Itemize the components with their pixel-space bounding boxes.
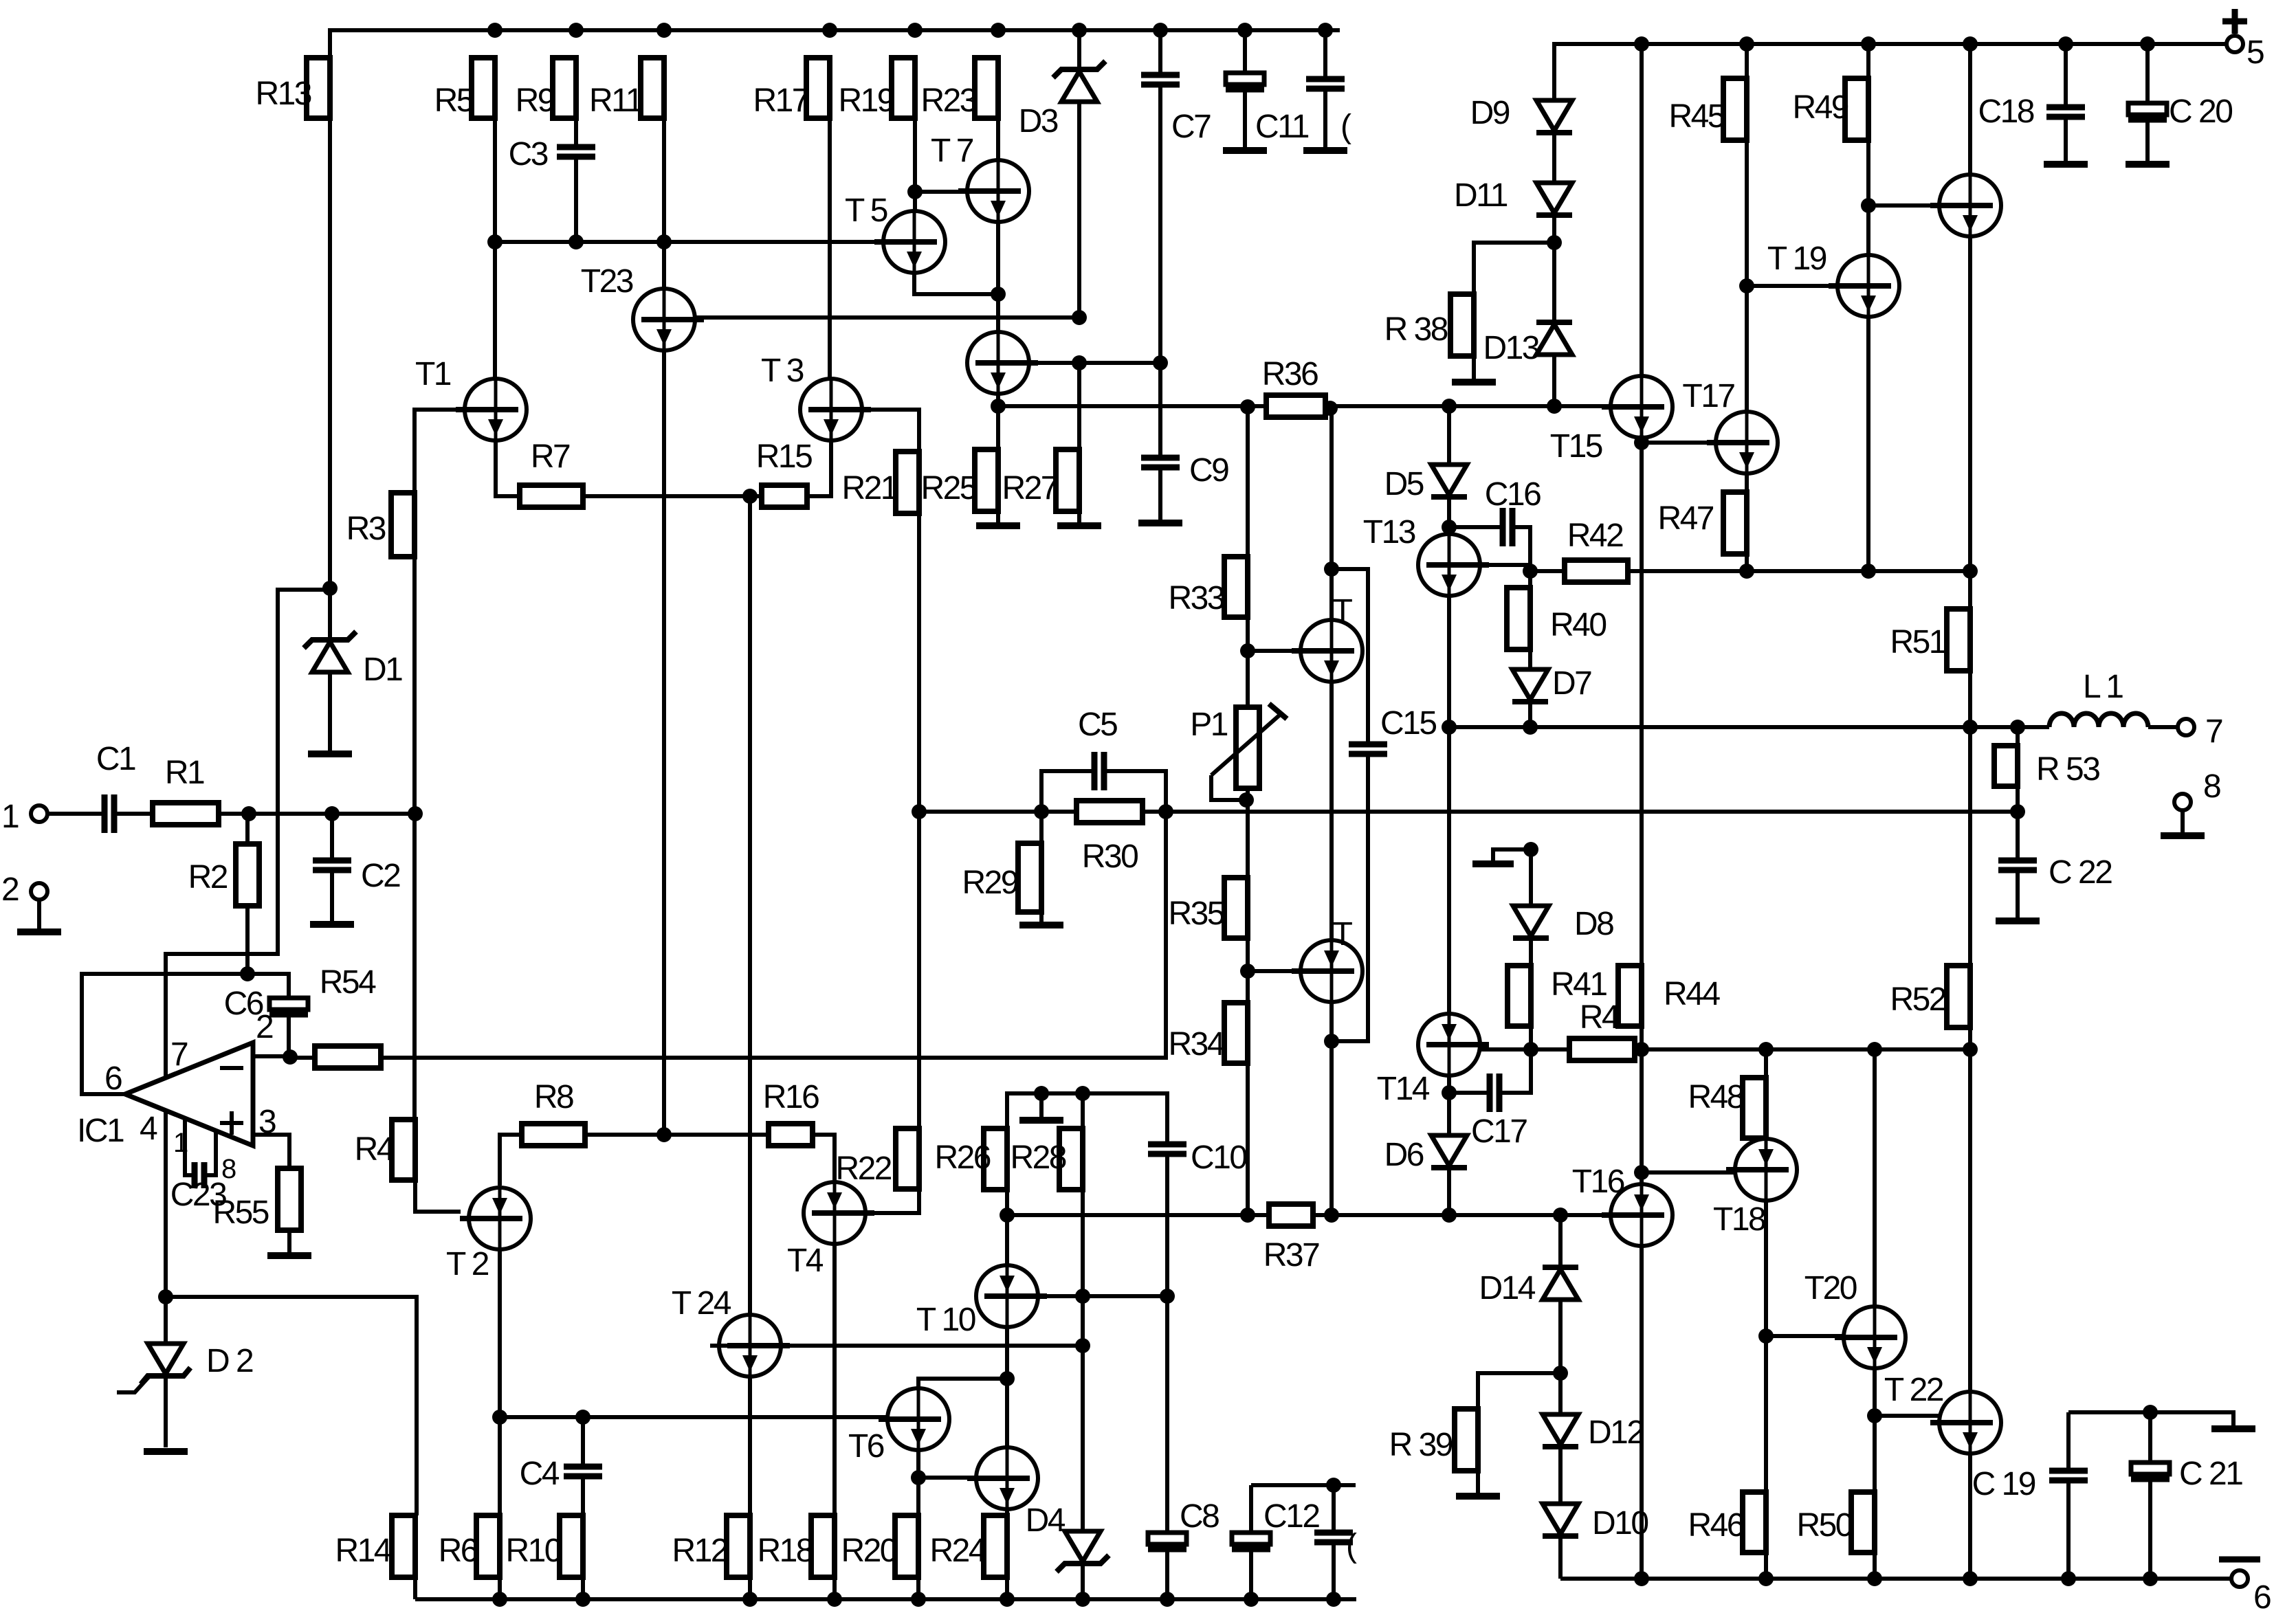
resistor R45: [1668, 78, 1747, 140]
wire C11 to ground: [1243, 89, 1247, 148]
wire R6 to rail: [498, 1577, 502, 1599]
node R51 output row: [1963, 720, 1978, 735]
wire to R39: [1478, 1373, 1560, 1409]
node D1 top: [322, 581, 338, 596]
wire R52 to R43 row: [1968, 1027, 1972, 1049]
diode D9: [1470, 95, 1572, 133]
wire D13 to R36 row: [1552, 355, 1556, 406]
node output col top: [1323, 401, 1338, 416]
wire C5 loop: [1041, 771, 1094, 812]
wire terminal2 to ground: [37, 900, 41, 929]
resistor R43: [1569, 999, 1635, 1060]
ground C13: [1303, 147, 1347, 154]
wire T15 emitter to T17 base: [1642, 441, 1717, 445]
resistor R3: [346, 493, 415, 557]
wire C22 stem: [2016, 812, 2020, 860]
wire T10 emitter: [1005, 1326, 1009, 1379]
node R44 R43 row: [1634, 1042, 1649, 1057]
svg-text:R44: R44: [1664, 976, 1720, 1012]
wire D6 to R37 row: [1447, 1168, 1451, 1215]
node T10 emitter: [1000, 1371, 1015, 1386]
wire T13 emitter to output: [1447, 596, 1451, 727]
svg-text:R 38: R 38: [1384, 311, 1448, 348]
node R28 T10 row: [1075, 1289, 1090, 1304]
wire T23 base row: [695, 315, 1079, 320]
svg-text:1: 1: [173, 1128, 188, 1158]
svg-text:T 10: T 10: [916, 1302, 975, 1338]
svg-text:R29: R29: [962, 865, 1017, 901]
wire C2 to ground: [330, 870, 334, 922]
wire terminal1 to C1: [47, 812, 104, 816]
resistor R13: [255, 58, 330, 118]
node rail R11: [656, 23, 672, 38]
wire T7 base row: [915, 190, 967, 194]
node R34 R37 row: [1240, 1208, 1255, 1223]
wire D1 anode to ground: [328, 672, 332, 751]
wire C4 to R10: [581, 1476, 585, 1515]
node rail R50: [1867, 1571, 1882, 1586]
svg-text:R37: R37: [1263, 1237, 1319, 1273]
wire T9 emitter: [996, 393, 1000, 406]
diode D14: [1479, 1267, 1578, 1306]
svg-text:D14: D14: [1479, 1270, 1535, 1306]
svg-text:6: 6: [104, 1060, 122, 1097]
svg-text:D 2: D 2: [206, 1343, 253, 1379]
wire D5 top: [1447, 406, 1451, 465]
node R43 row T20: [1867, 1042, 1882, 1057]
wire node to R27: [1077, 363, 1081, 449]
resistor R52: [1890, 966, 1970, 1027]
svg-text:R18: R18: [757, 1533, 813, 1569]
svg-text:4: 4: [140, 1111, 157, 1147]
svg-text:R23: R23: [920, 82, 976, 119]
diode D7: [1512, 665, 1591, 702]
wire C16 left: [1449, 525, 1503, 529]
svg-text:T: T: [1333, 916, 1353, 953]
node rail R45: [1739, 36, 1754, 52]
capacitor C16: [1485, 476, 1541, 546]
ground C9: [1138, 520, 1182, 526]
wire R37 row: [1005, 1213, 1269, 1217]
resistor R46: [1688, 1492, 1766, 1553]
svg-text:R9: R9: [516, 82, 555, 119]
wire node to R38: [1474, 243, 1554, 294]
node rail R10: [575, 1592, 590, 1607]
wire C4 stem: [581, 1417, 585, 1467]
svg-text:C6: C6: [224, 986, 263, 1022]
wire terminal 8 ground: [2181, 810, 2185, 833]
wire R41 to T14 base row: [1529, 1026, 1533, 1049]
wire R24 to rail: [1005, 1577, 1009, 1599]
wire C8 to rail: [1165, 1549, 1169, 1599]
node P1 wiper: [1239, 792, 1254, 808]
wire R26 top link: [1007, 1093, 1167, 1144]
node R5 row: [487, 234, 503, 249]
ground chassis bar near C21: [2211, 1425, 2255, 1432]
capacitor C1: [96, 741, 135, 833]
svg-text:D12: D12: [1588, 1414, 1644, 1451]
node rail R23: [991, 23, 1006, 38]
resistor R29: [962, 843, 1041, 912]
wire R38 to ground: [1472, 356, 1476, 379]
node rail C12: [1244, 1592, 1259, 1607]
wire C21 stem: [2148, 1412, 2152, 1462]
svg-text:R45: R45: [1668, 98, 1724, 135]
node T24 collector branch: [742, 489, 758, 504]
wire node to C6: [247, 974, 289, 998]
resistor R17: [753, 58, 830, 119]
node T14 emitter C17: [1442, 1085, 1457, 1100]
wire D11 to node: [1552, 215, 1556, 243]
node D5 T13: [1442, 520, 1457, 535]
capacitor C3: [509, 136, 595, 173]
wire T21 emitter: [1968, 236, 1972, 609]
node R36 row D5: [1442, 399, 1457, 414]
transistor T14: [1377, 1014, 1489, 1107]
svg-text:R16: R16: [763, 1079, 819, 1115]
wire C15 bracket top: [1332, 569, 1368, 744]
node D3 T9 row: [1072, 355, 1087, 370]
transistor T10: [916, 1265, 1047, 1338]
svg-text:T17: T17: [1682, 378, 1734, 414]
wire T14 base / R43 row: [1478, 1047, 1970, 1052]
wire T1 emitter to R7: [496, 441, 520, 496]
svg-text:T20: T20: [1804, 1270, 1857, 1306]
node R49 T19: [1861, 198, 1876, 213]
resistor R51: [1890, 609, 1970, 671]
diode D6: [1384, 1135, 1467, 1173]
svg-text:R49: R49: [1792, 89, 1848, 126]
transistor T3: [761, 353, 871, 441]
node R26 R37 row: [1000, 1208, 1015, 1223]
resistor R39: [1389, 1409, 1478, 1471]
svg-text:R52: R52: [1890, 981, 1945, 1018]
wire P1 to R35: [1246, 788, 1250, 878]
node rail R20: [911, 1592, 926, 1607]
resistor R23: [920, 58, 998, 119]
node D14 R37 row: [1553, 1208, 1568, 1223]
wire T24 base row: [710, 1344, 1083, 1348]
ground C18: [2044, 161, 2088, 168]
wire R11 to row: [662, 118, 666, 242]
svg-text:P1: P1: [1190, 707, 1228, 743]
node R48 R43 row: [1758, 1042, 1774, 1057]
wire output row to L1: [1449, 725, 2049, 729]
wire R26 bottom: [1005, 1190, 1009, 1215]
resistor R33: [1168, 557, 1248, 617]
resistor R9: [516, 58, 576, 119]
resistor R55: [212, 1168, 301, 1231]
wire top-right supply rail to terminal 5: [1554, 44, 2227, 98]
wire D14 top lead: [1558, 1215, 1563, 1267]
svg-text:7: 7: [170, 1036, 188, 1073]
terminal 7: [2178, 719, 2194, 735]
transistor T19: [1767, 241, 1899, 317]
wire D3 down: [1077, 102, 1081, 318]
svg-text:R20: R20: [841, 1533, 896, 1569]
svg-text:R6: R6: [439, 1533, 478, 1569]
node bus R30 right: [1158, 804, 1173, 819]
terminal 6 minus mark: [2219, 1557, 2260, 1563]
wire R8 to R16 row: [585, 1133, 769, 1137]
capacitor C6: [224, 986, 308, 1022]
wire R18 to rail: [832, 1577, 837, 1599]
ground R55: [267, 1252, 311, 1259]
wire T5 base row: [495, 240, 883, 244]
wire R28 col to T24 row: [1081, 1296, 1085, 1346]
wire T9 emitter / R36 row: [997, 404, 1611, 408]
wire output column upper: [1329, 408, 1334, 621]
svg-text:R25: R25: [920, 470, 976, 507]
svg-text:T 2: T 2: [446, 1246, 489, 1282]
node C7 T9 row: [1153, 355, 1168, 370]
transistor T4: [787, 1182, 874, 1279]
wire P1 wiper to bus: [1211, 775, 1246, 800]
transistor T20: [1804, 1270, 1906, 1368]
svg-text:C9: C9: [1189, 452, 1228, 489]
resistor R6: [439, 1515, 500, 1577]
op-amp IC1: [77, 1009, 276, 1149]
wire T20 base row: [1766, 1334, 1846, 1338]
wire node to D12: [1558, 1373, 1563, 1414]
wire D4 top: [1081, 1346, 1085, 1531]
resistor R49: [1792, 78, 1868, 140]
wire C7 to T9 row: [1158, 85, 1162, 363]
svg-text:T 7: T 7: [931, 133, 973, 169]
wire node to T5 collector: [913, 192, 917, 211]
wire bottom-right rail to terminal 6: [1560, 1577, 2231, 1581]
transistor T21: [1930, 175, 2001, 236]
capacitor C14: [1314, 1528, 1357, 1564]
wire IC1 output pin6: [82, 974, 247, 1094]
node T15 emitter: [1634, 435, 1649, 450]
transistor T11: [1292, 593, 1362, 682]
resistor R36: [1262, 356, 1325, 417]
resistor R35: [1168, 878, 1248, 938]
wire output col to R52: [1968, 727, 1972, 966]
svg-text:C 19: C 19: [1972, 1466, 2035, 1502]
wire T19 emitter to R42 row: [1866, 317, 1870, 571]
node C21 top: [2143, 1405, 2158, 1420]
node rail C8: [1160, 1592, 1175, 1607]
wire R16 to T4 collector: [813, 1135, 835, 1183]
svg-text:T13: T13: [1363, 514, 1415, 550]
svg-text:T 3: T 3: [761, 353, 804, 389]
ground D2: [144, 1448, 188, 1455]
capacitor C4: [520, 1456, 602, 1492]
svg-text:R14: R14: [335, 1533, 391, 1569]
node pin2: [283, 1049, 298, 1065]
wire R27 to ground: [1077, 511, 1081, 523]
ground R25: [976, 522, 1020, 529]
wire R53 to bus end: [2016, 786, 2020, 812]
capacitor C20: [2128, 93, 2232, 130]
svg-text:R30: R30: [1082, 838, 1138, 875]
wire R35 to node: [1246, 938, 1250, 971]
svg-text:D5: D5: [1384, 466, 1424, 502]
capacitor C22: [1998, 854, 2112, 891]
svg-text:C 20: C 20: [2169, 93, 2232, 130]
wire R48 to T18: [1764, 1138, 1768, 1139]
svg-text:C7: C7: [1171, 109, 1211, 145]
wire T9 base row: [1028, 361, 1160, 365]
wire node to R6: [498, 1417, 502, 1515]
svg-text:C15: C15: [1380, 705, 1436, 742]
svg-text:R19: R19: [838, 82, 894, 119]
node R36 row R33: [1240, 399, 1255, 414]
svg-text:R13: R13: [255, 76, 311, 112]
resistor R54: [315, 964, 381, 1068]
capacitor C9: [1141, 452, 1228, 489]
resistor R40: [1507, 588, 1606, 649]
svg-text:D4: D4: [1026, 1502, 1066, 1539]
wire R8-R16 row from T2 collector: [500, 1135, 522, 1186]
wire D5 to node: [1447, 497, 1451, 527]
wire R44 to R43 row: [1640, 1026, 1644, 1049]
wire bus to R22: [917, 812, 921, 1128]
resistor R42: [1565, 518, 1628, 582]
wire node to T13: [1447, 527, 1451, 534]
wire R55 to ground: [287, 1230, 291, 1253]
wire C7 stem: [1158, 30, 1162, 75]
wire node to R25: [996, 406, 1000, 449]
node rail C19: [2061, 1571, 2076, 1586]
svg-text:D13: D13: [1483, 330, 1538, 366]
wire C6 to pin2 node: [287, 1014, 291, 1056]
node top link R28: [1075, 1086, 1090, 1101]
wire R22 to T4 base: [865, 1189, 919, 1213]
svg-text:R17: R17: [753, 82, 808, 119]
node R11 row: [656, 234, 672, 249]
diode D10: [1543, 1504, 1648, 1542]
svg-text:T14: T14: [1377, 1071, 1430, 1107]
node D11 R38: [1547, 235, 1562, 250]
wire R39 to ground: [1476, 1471, 1480, 1493]
wire R50 to rail: [1873, 1553, 1877, 1579]
svg-text:2: 2: [1, 871, 19, 908]
svg-text:IC1: IC1: [77, 1113, 124, 1149]
wire C17 right: [1499, 1049, 1531, 1093]
ground D1: [308, 750, 352, 757]
wire T15 emitter: [1640, 438, 1644, 966]
node rail R46: [1758, 1571, 1774, 1586]
wire R37 to T16 base: [1313, 1213, 1611, 1217]
resistor R5: [434, 58, 495, 119]
capacitor C19: [1972, 1466, 2088, 1502]
diode D11: [1454, 177, 1572, 215]
svg-text:R2: R2: [188, 859, 228, 896]
node rail C7: [1153, 23, 1168, 38]
wire node to R20: [916, 1478, 920, 1515]
wire T20 emitter: [1873, 1368, 1877, 1492]
wire R43 row to T22: [1968, 1049, 1972, 1392]
capacitor C10: [1148, 1139, 1246, 1176]
transistor T24: [672, 1285, 790, 1377]
node rail C18: [2058, 36, 2073, 52]
wire R46 to rail: [1764, 1553, 1768, 1579]
node T24 base R28 col: [1075, 1338, 1090, 1353]
wire R19 down: [913, 118, 917, 192]
svg-text:C12: C12: [1263, 1498, 1319, 1535]
transistor T9: [967, 332, 1038, 394]
wire D7 to output row: [1528, 702, 1532, 727]
node C10 T10 row: [1160, 1289, 1175, 1304]
wire IC1 pin8: [204, 1132, 216, 1175]
wire D14 to node: [1558, 1300, 1563, 1373]
wire C22 to ground: [2016, 870, 2020, 918]
node R47 R42 row: [1739, 564, 1754, 579]
wire T17 emitter to R47: [1745, 474, 1749, 492]
svg-text:R5: R5: [434, 82, 474, 119]
wire IC1 pin3 to R55: [253, 1135, 289, 1168]
wire D2 to ground: [164, 1376, 168, 1447]
wire R9 to C3: [574, 118, 578, 147]
wire D4 to rail: [1081, 1566, 1085, 1599]
node R52 R43 row: [1963, 1042, 1978, 1057]
wire R51 to output row: [1968, 671, 1972, 727]
resistor R24: [929, 1515, 1007, 1577]
wire C20 to ground: [2145, 120, 2150, 162]
wire C5 loop right: [1104, 771, 1166, 812]
resistor R4: [355, 1120, 415, 1180]
wire T23 emitter to R8 row: [662, 351, 666, 1135]
wire R1 to input node: [219, 812, 415, 816]
svg-text:C10: C10: [1191, 1139, 1246, 1176]
wire T18 base row: [1642, 1170, 1737, 1175]
svg-text:7: 7: [2205, 713, 2222, 750]
wire T10 collector: [1005, 1215, 1009, 1266]
wire T18 emitter: [1764, 1200, 1768, 1492]
node D3 T23 row: [1072, 310, 1087, 325]
svg-text:R15: R15: [756, 438, 812, 475]
svg-text:C8: C8: [1180, 1498, 1219, 1535]
node rail R6: [492, 1592, 507, 1607]
wire R14 to rail: [413, 1577, 417, 1599]
resistor R28: [1010, 1128, 1083, 1190]
svg-text:T23: T23: [581, 263, 633, 300]
transistor T7: [931, 133, 1029, 222]
svg-text:T15: T15: [1550, 428, 1602, 465]
svg-text:R41: R41: [1551, 966, 1607, 1003]
wire R5 to row: [493, 118, 497, 242]
wire C12 stem: [1249, 1485, 1253, 1533]
transistor T6: [848, 1388, 949, 1465]
node D14 D12 R39: [1553, 1366, 1568, 1381]
wire R45 to T17: [1745, 140, 1749, 412]
capacitor C7: [1141, 75, 1211, 145]
wire T3 base to R21: [862, 410, 919, 452]
capacitor C18: [1978, 93, 2085, 130]
wire R12 to rail: [748, 1577, 752, 1599]
node T19 R42 row: [1861, 564, 1876, 579]
wire mini ground stem: [1039, 1093, 1044, 1117]
svg-text:R12: R12: [672, 1533, 727, 1569]
wire C21 to rail: [2148, 1479, 2152, 1579]
svg-text:D9: D9: [1470, 95, 1510, 131]
wire bottom-left rail: [415, 1597, 1356, 1601]
transistor T2: [446, 1188, 531, 1282]
wire T19 base row: [1747, 284, 1839, 288]
svg-text:T16: T16: [1572, 1164, 1624, 1200]
svg-text:T 19: T 19: [1767, 241, 1826, 277]
wire T20 collector: [1873, 1049, 1877, 1307]
wire T14 emitter to D6: [1447, 1075, 1451, 1135]
svg-text:R11: R11: [589, 82, 643, 119]
wire R33 top: [1246, 407, 1250, 557]
node rail R5: [487, 23, 503, 38]
svg-text:R51: R51: [1890, 624, 1945, 660]
transistor T18: [1713, 1139, 1797, 1238]
